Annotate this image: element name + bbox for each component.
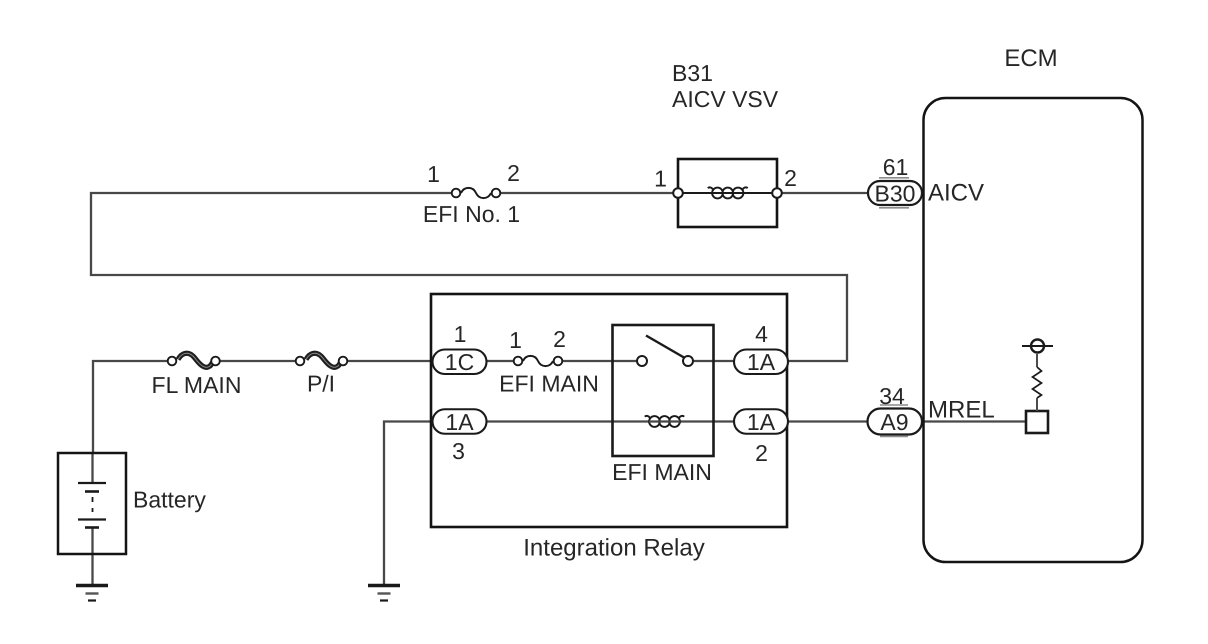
relay pin 1A/2 — [734, 409, 788, 435]
wire: VSV terminal 2 to ECM pin B30 — [782, 192, 868, 194]
svg-text:FL MAIN: FL MAIN — [152, 372, 242, 398]
svg-text:2: 2 — [755, 440, 768, 466]
svg-text:AICV: AICV — [928, 180, 984, 207]
pin number 2 (VSV) — [784, 165, 797, 191]
pin number 1 (VSV) — [654, 166, 667, 192]
ECM pin B30 grey accents — [879, 178, 909, 208]
wire: relay 1C to EFI MAIN fuse — [487, 360, 513, 362]
pin number 2 (EFI No.1) — [507, 160, 520, 186]
svg-text:1: 1 — [427, 161, 440, 187]
svg-text:EFI MAIN: EFI MAIN — [499, 371, 599, 397]
relay EFI MAIN coil label — [612, 459, 712, 485]
svg-text:AICV VSV: AICV VSV — [672, 86, 779, 112]
Integration Relay box — [431, 294, 787, 527]
ground (battery) — [76, 586, 108, 601]
pull-up resistor — [1033, 354, 1042, 411]
svg-text:P/I: P/I — [307, 371, 335, 397]
pin number 3 (relay) — [452, 438, 465, 464]
wire: P/I to relay 1C — [348, 360, 433, 362]
battery B+ internal lead — [91, 453, 93, 584]
relay coil — [645, 416, 684, 427]
wire: relay coil row — [487, 420, 734, 422]
B31 label — [672, 60, 713, 86]
fusible link P/I — [296, 353, 348, 367]
pin number 1 (EFI No.1) — [427, 161, 440, 187]
battery box — [58, 453, 126, 554]
svg-text:1A: 1A — [445, 409, 474, 435]
ECM pin B30 — [868, 180, 922, 206]
svg-text:4: 4 — [755, 321, 768, 347]
fuse EFI No. 1 label — [423, 201, 520, 227]
svg-text:1A: 1A — [747, 349, 776, 375]
svg-text:1: 1 — [654, 166, 667, 192]
wire: EFI No.1 fuse to VSV terminal 1 — [501, 192, 673, 194]
Integration Relay label — [523, 535, 704, 562]
svg-text:Battery: Battery — [133, 487, 206, 513]
fuse EFI No. 1 — [452, 188, 501, 198]
wire: FL MAIN to P/I — [221, 360, 296, 362]
wire: relay contact to pin 1A/4 — [693, 360, 734, 362]
VSV terminal 1 — [673, 188, 683, 198]
wire: battery positive feed loop (top) — [91, 193, 847, 361]
VSV coil — [684, 187, 772, 198]
relay pin 1A/3 — [433, 409, 487, 435]
battery cells — [78, 483, 106, 528]
FL MAIN label — [152, 372, 242, 398]
ground (relay coil) — [368, 586, 400, 601]
MREL net label — [928, 397, 995, 424]
svg-text:3: 3 — [452, 438, 465, 464]
AICV VSV label — [672, 86, 779, 112]
svg-text:1: 1 — [454, 321, 467, 347]
svg-text:2: 2 — [553, 326, 566, 352]
pin number 2 (EFI MAIN fuse) — [553, 326, 566, 352]
fuse EFI MAIN label — [499, 371, 599, 397]
pin number 1 (relay 1C) — [454, 321, 467, 347]
svg-text:MREL: MREL — [928, 397, 995, 424]
wire: battery riser to FL MAIN — [93, 361, 167, 453]
internal supply terminal — [1022, 340, 1053, 353]
svg-text:1: 1 — [509, 327, 522, 353]
relay pin 1A/4 — [734, 349, 788, 375]
svg-text:ECM: ECM — [1004, 45, 1057, 72]
wire: ground to relay 1A/3 — [384, 422, 433, 585]
svg-text:Integration Relay: Integration Relay — [523, 535, 704, 562]
Battery label — [133, 487, 206, 513]
ECM box — [924, 98, 1143, 562]
relay pin 1C — [433, 349, 487, 375]
svg-text:A9: A9 — [880, 409, 908, 435]
relay inner box — [613, 325, 714, 456]
svg-text:1C: 1C — [445, 349, 474, 375]
pin number 4 — [755, 321, 768, 347]
svg-text:1A: 1A — [747, 409, 776, 435]
fuse EFI MAIN — [514, 356, 563, 366]
P/I label — [307, 371, 335, 397]
wire: A9 to MREL driver square — [922, 420, 1026, 422]
ECM pin A9 grey accents — [880, 405, 908, 437]
svg-text:EFI No. 1: EFI No. 1 — [423, 201, 520, 227]
wire: relay 1A/2 to ECM pin A9 — [788, 420, 868, 422]
fusible link FL MAIN — [168, 353, 220, 367]
VSV B31 box — [678, 159, 777, 227]
pin number 61 — [883, 154, 909, 180]
MREL driver square — [1026, 411, 1048, 433]
svg-text:EFI MAIN: EFI MAIN — [612, 459, 712, 485]
relay switch contact right — [683, 356, 693, 366]
wire: EFI MAIN fuse to relay contact — [563, 360, 637, 362]
AICV net label — [928, 180, 984, 207]
svg-text:B31: B31 — [672, 60, 713, 86]
svg-text:2: 2 — [507, 160, 520, 186]
svg-text:2: 2 — [784, 165, 797, 191]
relay switch contact left — [637, 356, 647, 366]
ECM label — [1004, 45, 1057, 72]
svg-text:B30: B30 — [875, 180, 916, 206]
relay switch blade — [646, 336, 684, 358]
pin number 2 (relay) — [755, 440, 768, 466]
pin number 34 — [879, 383, 905, 409]
svg-text:34: 34 — [879, 383, 905, 409]
ECM pin A9 — [868, 409, 923, 435]
svg-text:61: 61 — [883, 154, 909, 180]
VSV terminal 2 — [772, 188, 782, 198]
pin number 1 (EFI MAIN fuse) — [509, 327, 522, 353]
